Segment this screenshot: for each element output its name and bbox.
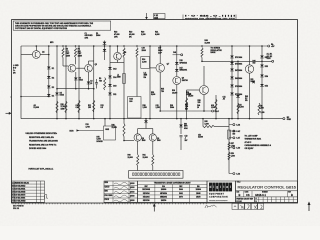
svg-text:UNLESS OTHERWISE INDICATED:: UNLESS OTHERWISE INDICATED: (26, 132, 58, 135)
svg-text:I · O · 816 - O - I | I |: I · O · 816 - O - I | I | I (185, 15, 236, 17)
svg-text:D4: D4 (52, 94, 54, 97)
svg-text:910: 910 (253, 63, 256, 65)
svg-text:RESISTORS ARE 100 PPM TC: RESISTORS ARE 100 PPM TC (29, 143, 57, 146)
svg-text:10/8/69: 10/8/69 (130, 196, 135, 198)
svg-text:BASE: BASE (211, 51, 217, 54)
svg-text:10,000: 10,000 (188, 96, 193, 98)
svg-text:10: 10 (197, 107, 199, 109)
svg-text:l: l (230, 185, 231, 189)
svg-text:DIODES ARE D664: DIODES ARE D664 (29, 147, 47, 150)
svg-text:1/8W: 1/8W (61, 108, 65, 110)
svg-text:2,200: 2,200 (141, 34, 146, 36)
svg-text:L100: L100 (261, 112, 265, 114)
svg-text:D14: D14 (113, 76, 116, 79)
svg-text:D11: D11 (113, 94, 116, 96)
svg-text:D13: D13 (113, 68, 116, 70)
svg-text:2N34: 2N34 (142, 49, 146, 52)
svg-text:1,500: 1,500 (211, 107, 215, 109)
svg-text:10/8/69: 10/8/69 (130, 187, 135, 189)
svg-text:MPS: MPS (184, 126, 187, 128)
svg-text:C-A6: C-A6 (236, 172, 240, 175)
svg-text:2N3790: 2N3790 (161, 200, 166, 202)
svg-text:E Q U I P M E N T: E Q U I P M E N T (209, 194, 225, 196)
svg-text:16,000: 16,000 (172, 92, 177, 94)
svg-text:500: 500 (129, 101, 132, 103)
svg-text:23,000: 23,000 (112, 127, 117, 129)
svg-text:35,000: 35,000 (198, 137, 203, 139)
svg-text:D81: D81 (265, 57, 268, 59)
svg-text:BOARD: BOARD (97, 140, 104, 143)
svg-text:1/4W: 1/4W (78, 54, 82, 57)
svg-text:C ECO 816-00031: C ECO 816-00031 (12, 188, 25, 190)
svg-text:10,000: 10,000 (205, 42, 211, 44)
svg-text:6.8: 6.8 (101, 107, 103, 109)
svg-text:5,600: 5,600 (151, 94, 155, 96)
svg-text:d: d (210, 185, 212, 189)
svg-text:2N3009: 2N3009 (161, 189, 166, 191)
svg-text:G816-0-1: G816-0-1 (255, 193, 267, 197)
svg-text:DEC3790: DEC3790 (143, 200, 150, 202)
svg-text:D83: D83 (184, 124, 187, 126)
svg-text:GND: GND (287, 119, 292, 121)
svg-text:35: 35 (90, 83, 92, 85)
svg-text:OR EQUIV: OR EQUIV (245, 148, 255, 150)
svg-text:B ECO 816-00012: B ECO 816-00012 (12, 185, 25, 187)
svg-text:MRE2904: MRE2904 (180, 69, 188, 72)
svg-text:4,700: 4,700 (86, 125, 90, 128)
svg-text:g: g (216, 185, 218, 189)
svg-text:D1: D1 (52, 68, 54, 70)
svg-text:B: B (291, 193, 293, 197)
svg-text:750: 750 (99, 81, 102, 83)
svg-text:CARR/HARNESS ASSEMBLY-A: CARR/HARNESS ASSEMBLY-A (245, 144, 272, 147)
svg-text:5%: 5% (129, 36, 132, 38)
svg-text:R57: R57 (231, 143, 234, 145)
svg-text:C48: C48 (173, 51, 176, 54)
svg-text:Q3: Q3 (95, 64, 97, 66)
svg-text:B: B (239, 193, 241, 197)
svg-text:D51: D51 (251, 79, 254, 81)
svg-text:5,600: 5,600 (205, 123, 209, 125)
svg-text:D54: D54 (265, 75, 268, 78)
svg-text:6,800: 6,800 (155, 34, 160, 36)
svg-text:DRN: DRN (105, 182, 108, 184)
svg-text:C-A9: C-A9 (236, 147, 240, 150)
svg-text:1N3606: 1N3606 (196, 189, 201, 191)
svg-text:PARTS LIST IS PL-G816-0-1: PARTS LIST IS PL-G816-0-1 (29, 167, 54, 170)
svg-text:C-AF: C-AF (236, 130, 240, 133)
svg-text:TRANSISTORS ARE DEC3009B: TRANSISTORS ARE DEC3009B (29, 140, 58, 143)
svg-text:THERMISTOR R201: THERMISTOR R201 (245, 139, 262, 141)
svg-text:PRINTED CIRCUIT REV: PRINTED CIRCUIT REV (236, 198, 253, 200)
svg-text:2N3790: 2N3790 (182, 80, 188, 82)
svg-text:D3: D3 (52, 87, 54, 89)
svg-text:Q9: Q9 (157, 138, 159, 140)
svg-text:Q1: Q1 (42, 52, 45, 54)
svg-text:R1,000: R1,000 (34, 107, 40, 109)
svg-text:REGULATOR CONTROL G816: REGULATOR CONTROL G816 (238, 185, 297, 190)
svg-text:75,000: 75,000 (239, 107, 244, 109)
svg-text:10/8/69: 10/8/69 (130, 191, 135, 193)
svg-text:D662: D662 (179, 193, 183, 195)
svg-text:ECO NO: ECO NO (236, 201, 242, 203)
svg-text:560: 560 (233, 133, 236, 135)
svg-text:.05: .05 (223, 99, 225, 101)
svg-text:1,000: 1,000 (142, 62, 147, 64)
svg-text:D670: D670 (179, 197, 183, 199)
svg-text:DEC FORM NO: DEC FORM NO (13, 205, 24, 207)
svg-text:3009: 3009 (142, 140, 146, 142)
svg-text:150: 150 (198, 102, 201, 104)
svg-text:D52: D52 (265, 85, 268, 87)
svg-text:15,000: 15,000 (143, 157, 148, 159)
svg-text:Q7: Q7 (167, 63, 170, 65)
svg-text:COPYRIGHT 1969 BY DIGITAL EQUI: COPYRIGHT 1969 BY DIGITAL EQUIPMENT CORP… (15, 27, 68, 30)
svg-text:i: i (213, 185, 214, 189)
svg-text:100: 100 (185, 108, 188, 110)
svg-text:Q8: Q8 (142, 138, 144, 140)
svg-text:C-A8: C-A8 (236, 123, 240, 126)
svg-text:750: 750 (161, 91, 164, 93)
svg-text:R59: R59 (231, 153, 234, 155)
svg-text:D53: D53 (265, 66, 268, 68)
svg-text:G ECO 816-00102: G ECO 816-00102 (12, 201, 25, 203)
svg-text:3009: 3009 (157, 140, 161, 142)
svg-text:D664: D664 (60, 94, 64, 97)
svg-text:CS: CS (246, 193, 250, 197)
svg-text:MPS: MPS (50, 42, 53, 44)
svg-text:1,500: 1,500 (231, 155, 235, 157)
svg-text:TRANSISTOR & DIODE CONVERSION: TRANSISTOR & DIODE CONVERSION CHART (154, 182, 192, 185)
svg-text:DEC3009B: DEC3009B (142, 189, 151, 191)
svg-text:D2: D2 (52, 77, 54, 79)
svg-text:15,000: 15,000 (128, 157, 133, 159)
svg-text:C53: C53 (198, 134, 201, 136)
svg-text:E ECO 816-00072: E ECO 816-00072 (12, 195, 25, 197)
svg-text:i: i (220, 185, 221, 189)
svg-text:1,200: 1,200 (156, 107, 160, 109)
svg-text:D10: D10 (113, 85, 116, 87)
svg-text:D664: D664 (170, 106, 174, 109)
svg-text:TITLE: TITLE (237, 182, 241, 184)
svg-text:C O R P O R A T I O N: C O R P O R A T I O N (209, 196, 228, 199)
svg-text:1N270: 1N270 (196, 197, 201, 199)
svg-text:a: a (226, 185, 228, 189)
svg-text:TO +15V COMP: TO +15V COMP (245, 136, 259, 138)
svg-text:D664: D664 (96, 34, 100, 37)
svg-text:PROJ ENG: PROJ ENG (105, 195, 114, 197)
svg-text:1,500: 1,500 (143, 107, 147, 109)
svg-text:100: 100 (88, 107, 91, 109)
svg-text:C12: C12 (185, 136, 188, 138)
svg-text:C-A7: C-A7 (236, 137, 240, 140)
svg-text:RESISTORS ARE 1/4W; 5%: RESISTORS ARE 1/4W; 5% (29, 136, 54, 139)
svg-text:10/8/69: 10/8/69 (130, 183, 135, 185)
svg-text:.1: .1 (185, 138, 186, 140)
svg-text:10%: 10% (114, 36, 118, 38)
svg-text:AT 45°C: AT 45°C (245, 141, 252, 144)
svg-text:10%: 10% (85, 38, 89, 40)
svg-text:10/8/69: 10/8/69 (130, 200, 135, 202)
svg-text:MPS6534: MPS6534 (180, 61, 187, 64)
